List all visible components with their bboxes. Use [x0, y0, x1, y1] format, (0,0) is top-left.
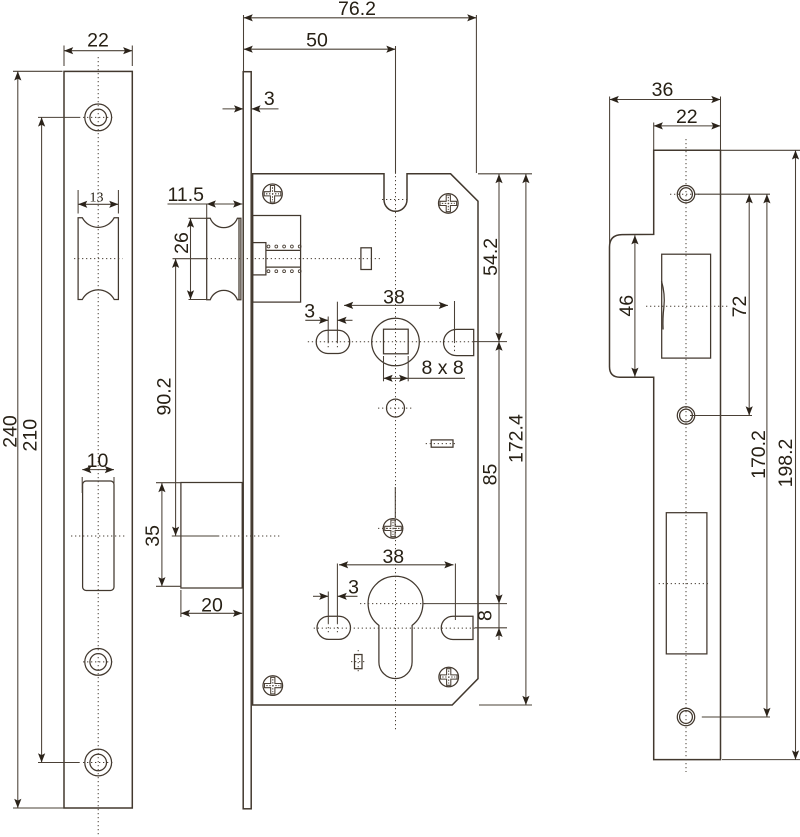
deadbolt centerline dotted: [218, 535, 281, 537]
deadbolt cutout: [666, 513, 707, 654]
dimension 172.4 (body height): [479, 174, 532, 705]
svg-text:76.2: 76.2: [338, 0, 376, 20]
svg-text:36: 36: [652, 79, 674, 101]
body vertical centerline: [395, 176, 397, 730]
svg-text:3: 3: [264, 88, 275, 110]
deadbolt slot: [83, 481, 114, 591]
dimension 72 (hole spacing): [690, 194, 770, 415]
dimension 170.2 (top to bottom hole): [702, 194, 771, 717]
dimension 10 (slot width): [82, 450, 114, 493]
svg-text:3: 3: [304, 301, 315, 323]
dimension 22 (strike top width): [654, 106, 721, 151]
lower small rect: [355, 655, 363, 669]
top-left screw: [263, 184, 283, 204]
dimension 50 (backset): [244, 29, 396, 174]
upper oval centerline: [308, 341, 474, 343]
lower small rect horizontal centerline: [351, 661, 366, 663]
svg-text:35: 35: [142, 525, 164, 547]
dimension 11.5 (latch head): [168, 184, 243, 218]
top-right screw: [439, 194, 459, 214]
strike top hole centerline: [670, 193, 702, 195]
spindle square 8x8: [384, 329, 409, 354]
svg-text:50: 50: [306, 29, 328, 51]
svg-text:10: 10: [87, 450, 109, 472]
deadbolt centerline solid leader: [172, 535, 218, 537]
svg-text:46: 46: [616, 295, 638, 317]
svg-text:240: 240: [0, 415, 22, 448]
dimension 20 (deadbolt throw): [181, 590, 242, 617]
svg-text:198.2: 198.2: [775, 439, 797, 488]
svg-text:3: 3: [348, 577, 359, 599]
latch guide box: [253, 216, 301, 303]
lower small rect vertical centerline: [357, 650, 359, 673]
dimension 38 lower (cylinder hole spacing): [337, 546, 455, 635]
middle screw horizontal centerline: [378, 527, 404, 529]
svg-text:22: 22: [676, 106, 698, 128]
dimension 8x8 (spindle square): [384, 356, 466, 382]
notch dotted tick: [382, 199, 410, 201]
strike vertical centerline: [685, 139, 687, 772]
dimension 3 lower (oval offset): [313, 577, 359, 635]
svg-text:13: 13: [90, 190, 104, 205]
dimension 8 (cylinder to oval): [475, 604, 507, 640]
lock body outline with top notch and chamfers: [253, 174, 478, 705]
dimension 35 (deadbolt height): [142, 483, 181, 587]
upper right D hole: [444, 329, 474, 355]
faceplate front outline: [64, 71, 132, 808]
deadbolt thrown: [181, 483, 242, 589]
strike bottom hole: [677, 708, 694, 725]
svg-text:72: 72: [729, 296, 751, 318]
middle screw: [383, 519, 403, 539]
latch bolt head: [207, 218, 241, 300]
svg-text:85: 85: [480, 464, 502, 486]
bottom-right screw: [439, 667, 459, 687]
upper left oval hole: [316, 330, 350, 353]
latch opening: [78, 218, 118, 300]
middle screw hole: [85, 649, 112, 676]
bottom-left screw: [263, 676, 283, 696]
svg-text:38: 38: [383, 286, 405, 308]
svg-text:20: 20: [201, 594, 223, 616]
dimension 90.2 (latch to deadbolt): [154, 259, 207, 536]
dimension 26 (latch head height): [171, 218, 207, 299]
handle hub circle: [372, 318, 420, 366]
top screw hole: [85, 104, 112, 131]
dimension 76.2 (body depth overall): [244, 0, 477, 173]
svg-text:90.2: 90.2: [154, 378, 176, 416]
lower left oval hole: [317, 616, 351, 639]
middle hole horizontal centerline: [83, 661, 114, 663]
svg-text:172.4: 172.4: [506, 414, 528, 463]
deadbolt cutout horizontal centerline: [659, 583, 710, 585]
latch cutout horizontal centerline: [646, 305, 728, 307]
bottom hole horizontal centerline: [83, 762, 114, 764]
dimension 198.2 (strike length): [721, 150, 800, 759]
svg-text:8 x 8: 8 x 8: [422, 357, 464, 379]
svg-text:26: 26: [171, 232, 193, 254]
spring shaft bottom line: [266, 266, 301, 268]
dimension 46 (lip height): [616, 235, 639, 377]
dimension 3 (faceplate thickness): [223, 88, 279, 113]
svg-text:38: 38: [382, 546, 404, 568]
follower small rect: [361, 248, 372, 270]
dimension 36 (strike width): [610, 79, 721, 244]
dimension 85 (hub to cylinder): [423, 342, 507, 604]
svg-text:54.2: 54.2: [480, 238, 502, 276]
bolt stump centerline: [426, 443, 457, 445]
strike plate outline: [610, 150, 721, 759]
lower right D hole: [441, 616, 473, 639]
dimension 240 (faceplate length): [0, 71, 64, 808]
svg-text:22: 22: [87, 29, 109, 51]
faceplate vertical centerline: [97, 57, 99, 835]
latch cutout ramp curve: [662, 281, 665, 330]
bottom screw hole: [85, 749, 112, 776]
dimension 38 upper (hub hole spacing): [337, 286, 454, 352]
svg-text:170.2: 170.2: [748, 430, 770, 479]
faceplate side strip: [243, 72, 251, 809]
svg-text:210: 210: [19, 419, 41, 452]
top hole horizontal centerline: [83, 116, 114, 118]
lower oval centerline: [314, 627, 475, 629]
dimension 13 (latch opening width, serif): [78, 190, 118, 214]
cam follower circle: [387, 399, 405, 417]
dimension 210 (hole spacing): [19, 117, 80, 762]
latch horizontal centerline: [207, 258, 382, 260]
euro cylinder profile: [368, 576, 423, 678]
dimension 22 (faceplate width): [64, 29, 132, 66]
svg-text:11.5: 11.5: [168, 184, 205, 206]
latch cutout: [662, 254, 711, 358]
latch opening horizontal centerline: [74, 258, 122, 260]
latch bolt head inner face line: [238, 218, 240, 300]
spring shaft top line: [266, 249, 301, 251]
dimension 3 upper (oval offset): [304, 301, 352, 350]
bolt stump small rect: [431, 440, 453, 447]
cylinder horizontal centerline: [360, 603, 426, 605]
strike middle hole: [677, 407, 694, 424]
spring coils bottom row: [267, 270, 301, 273]
svg-text:8: 8: [475, 610, 497, 621]
latch stem: [253, 243, 266, 275]
spring coils top row: [267, 245, 301, 248]
cam circle horizontal centerline: [378, 407, 413, 409]
dimension 54.2 (top to hub): [474, 174, 532, 342]
slot horizontal centerline: [71, 535, 126, 537]
strike top hole: [677, 186, 694, 203]
center link line: [394, 487, 396, 518]
